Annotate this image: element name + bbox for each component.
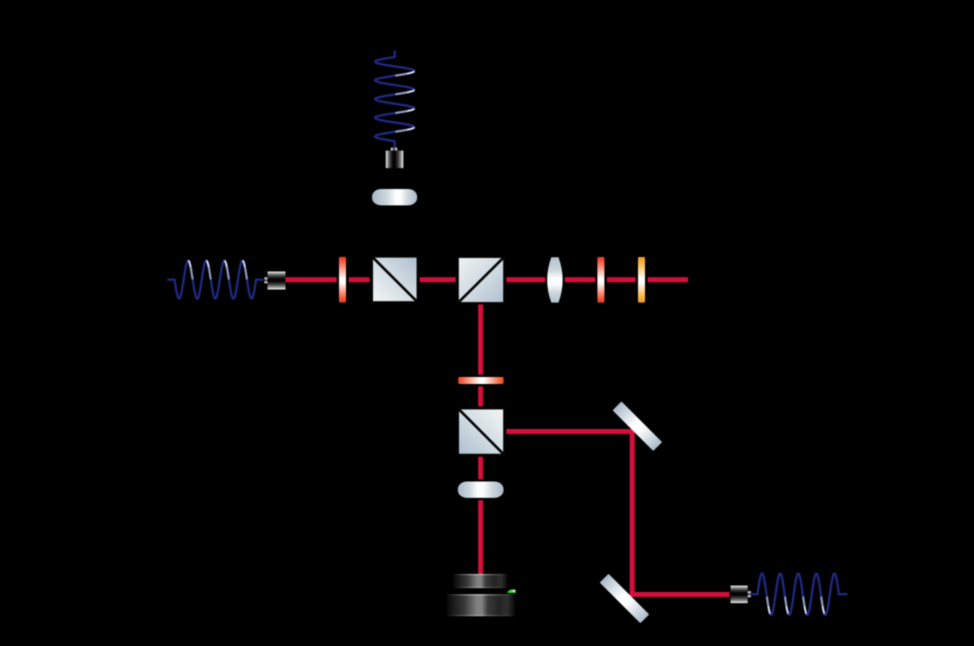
collimator (bottom-right fiber port) <box>731 586 751 604</box>
beamsplitter cube BS3 <box>458 409 504 455</box>
camera LED <box>507 590 516 594</box>
beamsplitter cube BS2 <box>458 257 504 303</box>
beam: BS1 to BS2 <box>420 277 456 282</box>
beam: collimator to filter <box>286 277 337 282</box>
beam: lens to camera <box>478 500 483 574</box>
red filter F2 <box>597 257 604 303</box>
beam: BS3 right to mirror M1 <box>506 429 634 434</box>
fiber coil (top fiber, vertical) <box>375 51 414 147</box>
lens L2 (horizontal) <box>458 482 504 498</box>
collimator (left fiber port) <box>264 272 285 290</box>
red filter F4 (horizontal) <box>458 377 503 384</box>
beam: after orange filter <box>648 277 688 282</box>
beamsplitter cube BS1 <box>372 257 417 302</box>
camera / detector <box>446 574 516 616</box>
beam: lens to red filter <box>565 277 595 282</box>
mirror M2 <box>600 574 649 623</box>
beam: M1 down to M2 <box>630 429 635 597</box>
beam: BS2 down to filter F4 <box>478 304 483 374</box>
beam: F4 to cube BS3 <box>478 386 483 406</box>
beam: M2 right to collimator <box>630 592 730 597</box>
beam: filter to cube BS1 <box>349 277 370 282</box>
beam: BS3 down to lens <box>478 457 483 480</box>
condenser disk (top) <box>372 189 417 205</box>
red filter F1 <box>339 257 346 303</box>
mirror M1 <box>613 401 662 450</box>
fiber coil (left source fiber) <box>168 261 262 299</box>
orange filter F3 <box>638 257 645 303</box>
beam: BS2 to lens <box>506 277 545 282</box>
fiber coil (bottom-right fiber) <box>752 574 847 616</box>
lens L1 <box>547 257 563 302</box>
collimator (top fiber port) <box>386 148 404 169</box>
beam: red filter to orange filter <box>607 277 636 282</box>
